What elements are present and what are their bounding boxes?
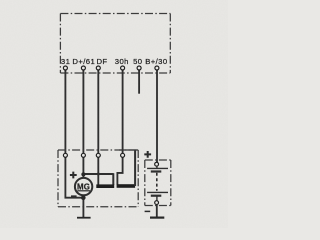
wire DF: [97, 70, 99, 186]
wire switch leg 1: [112, 173, 114, 185]
terminal 30h: [121, 66, 125, 70]
label + (generator): [70, 172, 77, 179]
node DF (generator box): [96, 153, 100, 157]
junction DF crossing: [97, 173, 100, 176]
junction D- node: [81, 195, 86, 200]
ground (battery): [150, 217, 164, 219]
wire 31: [65, 70, 83, 198]
label - (battery): [145, 210, 151, 212]
generator MG (dynamo): [75, 178, 92, 195]
switch contact bar 2: [117, 184, 136, 188]
battery cell 1 plate long: [147, 167, 168, 169]
ground (generator): [77, 217, 91, 219]
battery box (dash-dot boundary): [145, 160, 171, 206]
wire 50 (stub): [138, 70, 140, 94]
terminal D+/61: [81, 66, 85, 70]
node D+ (generator box): [81, 153, 85, 157]
switch contact bar 1: [96, 184, 114, 188]
terminal 31: [63, 66, 67, 70]
battery cell 1 plate short: [151, 170, 162, 172]
wire D+ to switch (horizontal): [83, 173, 113, 175]
label - (generator): [71, 195, 77, 197]
battery ground lead: [156, 204, 158, 217]
wire switch leg 2 (riser to box edge): [134, 150, 136, 186]
battery middle link (dashed): [156, 173, 158, 191]
junction D+ node: [81, 172, 85, 176]
wire 30h: [117, 70, 122, 185]
terminal B+/30: [155, 66, 159, 70]
battery positive terminal: [155, 162, 159, 166]
wire B+/30: [156, 70, 158, 162]
battery cell2 bottom stub: [156, 197, 158, 201]
terminal DF: [96, 66, 100, 70]
battery cell 2 plate short: [151, 195, 162, 197]
battery cell1 top stub: [156, 166, 158, 168]
terminal 50: [137, 66, 141, 70]
battery negative terminal: [155, 201, 159, 205]
generator box top edge long dash at corner: [119, 149, 138, 151]
paper grain overlay: [0, 0, 228, 228]
label + (battery): [144, 151, 151, 158]
generator box (dash-dot boundary): [58, 150, 138, 207]
node 31 (generator box): [63, 153, 67, 157]
wire D+/61: [82, 70, 84, 179]
node 30h (generator box): [121, 153, 125, 157]
battery cell 2 plate long: [147, 191, 168, 193]
regulator box (dash-dot boundary): [60, 14, 170, 74]
generator bottom lead: [82, 195, 84, 217]
